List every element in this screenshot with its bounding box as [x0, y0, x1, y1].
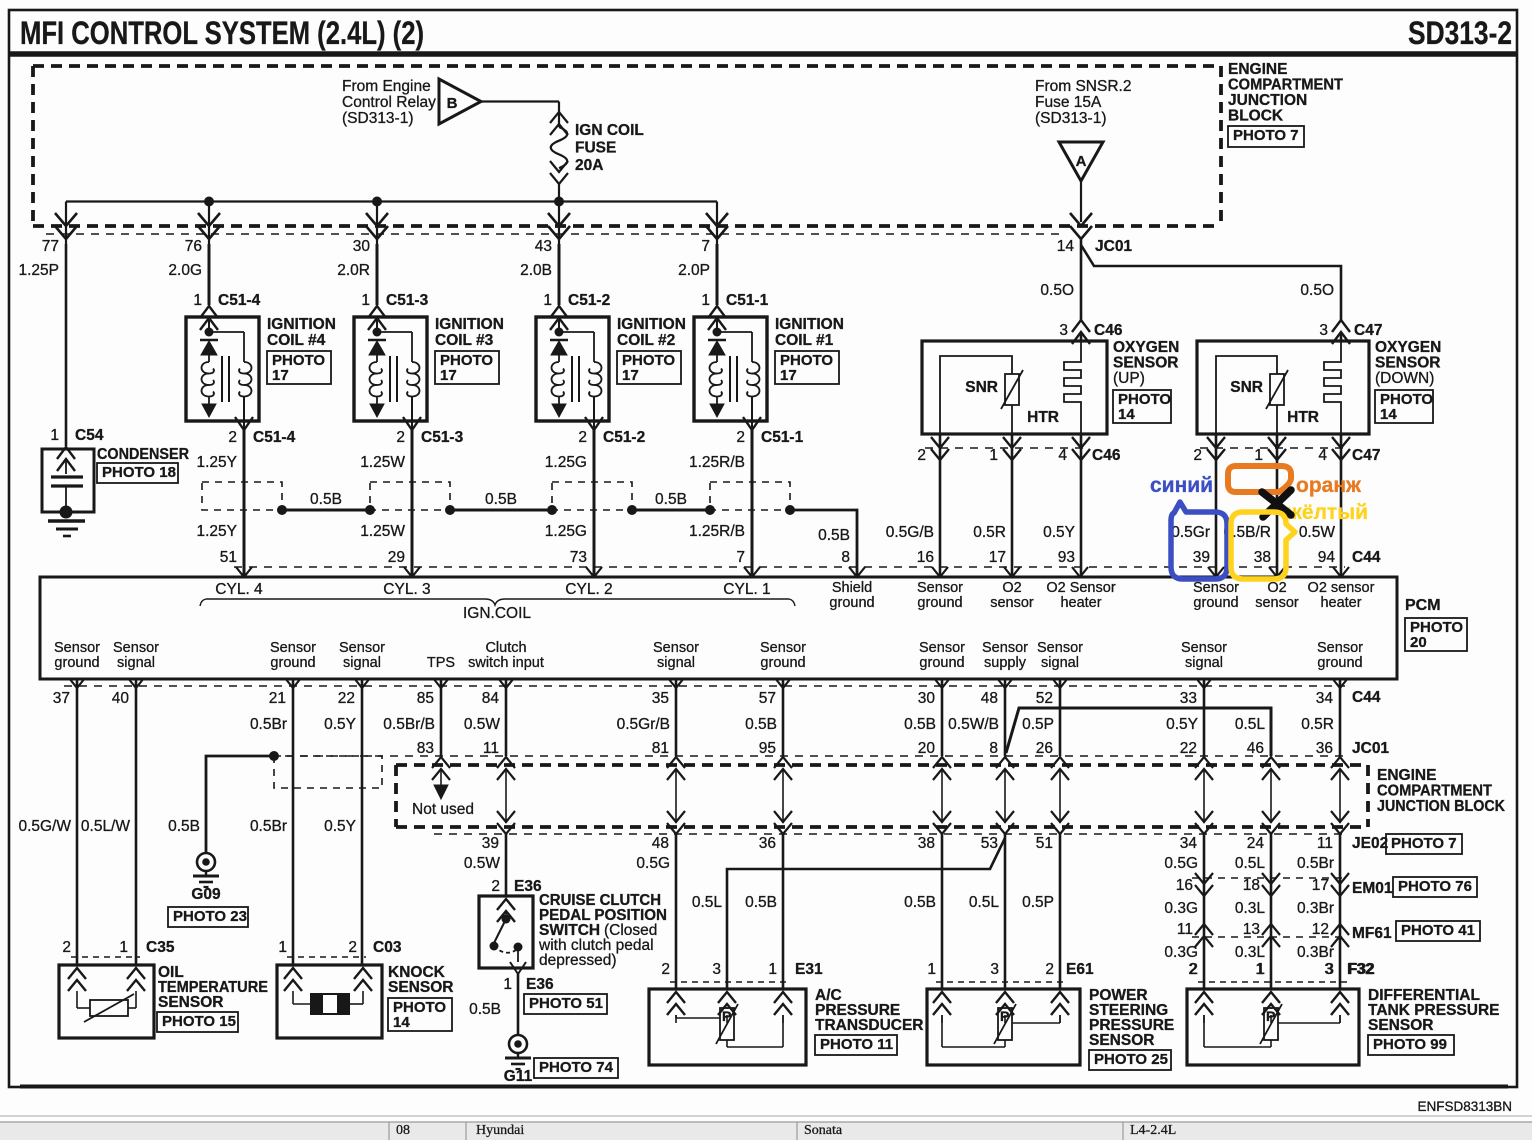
svg-text:20A: 20A	[575, 157, 603, 174]
svg-text:Sensor: Sensor	[1037, 640, 1083, 656]
svg-text:0.5Br: 0.5Br	[250, 716, 287, 733]
svg-text:2: 2	[1193, 447, 1202, 464]
svg-text:2.0R: 2.0R	[337, 262, 370, 279]
svg-text:G09: G09	[191, 886, 221, 903]
svg-text:C51-2: C51-2	[568, 292, 610, 309]
svg-text:39: 39	[1193, 549, 1210, 566]
svg-text:PHOTO 15: PHOTO 15	[162, 1013, 236, 1030]
svg-text:2.0P: 2.0P	[678, 262, 710, 279]
svg-text:2: 2	[228, 429, 237, 446]
svg-text:Fuse 15A: Fuse 15A	[1035, 94, 1102, 111]
svg-text:0.5G: 0.5G	[1164, 855, 1198, 872]
svg-text:OXYGEN: OXYGEN	[1113, 339, 1179, 356]
svg-text:A: A	[1076, 153, 1087, 170]
svg-text:3: 3	[712, 961, 721, 978]
svg-text:COIL #3: COIL #3	[435, 332, 494, 349]
svg-text:SENSOR: SENSOR	[1368, 1017, 1433, 1034]
svg-text:From SNSR.2: From SNSR.2	[1035, 78, 1131, 95]
svg-text:0.5R: 0.5R	[973, 524, 1006, 541]
svg-text:CYL. 4: CYL. 4	[215, 581, 263, 598]
svg-text:35: 35	[652, 690, 669, 707]
svg-text:0.5B: 0.5B	[818, 527, 850, 544]
svg-text:2.0G: 2.0G	[168, 262, 202, 279]
svg-text:0.5B: 0.5B	[168, 818, 200, 835]
svg-text:PHOTO 11: PHOTO 11	[820, 1036, 893, 1053]
svg-text:ground: ground	[829, 595, 874, 611]
svg-text:PHOTO 51: PHOTO 51	[529, 995, 603, 1012]
svg-text:1: 1	[278, 939, 287, 956]
svg-text:L4-2.4L: L4-2.4L	[1130, 1123, 1176, 1138]
svg-text:3: 3	[990, 961, 999, 978]
svg-text:2: 2	[917, 447, 926, 464]
svg-text:17: 17	[622, 367, 639, 384]
svg-text:signal: signal	[1041, 655, 1079, 671]
svg-text:1: 1	[768, 961, 777, 978]
svg-text:(UP): (UP)	[1113, 370, 1145, 387]
svg-text:MFI CONTROL SYSTEM (2.4L) (2): MFI CONTROL SYSTEM (2.4L) (2)	[20, 15, 424, 51]
svg-text:PHOTO 99: PHOTO 99	[1373, 1036, 1447, 1053]
svg-text:30: 30	[918, 690, 936, 707]
svg-text:C51-3: C51-3	[386, 292, 429, 309]
svg-text:HTR: HTR	[1287, 409, 1319, 426]
svg-text:PHOTO 18: PHOTO 18	[102, 464, 176, 481]
svg-text:76: 76	[185, 238, 202, 255]
svg-text:94: 94	[1318, 549, 1336, 566]
svg-text:84: 84	[482, 690, 500, 707]
svg-text:0.5Br/B: 0.5Br/B	[383, 716, 435, 733]
svg-text:P: P	[722, 1008, 731, 1024]
svg-text:SNR: SNR	[965, 379, 998, 396]
svg-text:52: 52	[1036, 690, 1053, 707]
svg-text:1.25Y: 1.25Y	[196, 454, 237, 471]
svg-text:16: 16	[917, 549, 934, 566]
svg-text:24: 24	[1247, 835, 1265, 852]
svg-text:E36: E36	[526, 976, 554, 993]
svg-text:0.3Br: 0.3Br	[1297, 900, 1334, 917]
svg-text:8: 8	[841, 549, 850, 566]
svg-text:11: 11	[1317, 835, 1333, 852]
svg-text:46: 46	[1247, 740, 1264, 757]
svg-text:0.5B: 0.5B	[904, 894, 936, 911]
svg-text:ground: ground	[917, 595, 962, 611]
svg-text:11: 11	[1177, 921, 1193, 938]
svg-text:Sensor: Sensor	[1181, 640, 1227, 656]
svg-text:JUNCTION: JUNCTION	[1228, 92, 1307, 109]
svg-text:30: 30	[353, 238, 371, 255]
svg-text:48: 48	[981, 690, 998, 707]
svg-text:0.5O: 0.5O	[1040, 282, 1074, 299]
svg-text:0.3Br: 0.3Br	[1297, 944, 1334, 961]
svg-text:1: 1	[1256, 961, 1265, 978]
svg-text:C47: C47	[1352, 447, 1380, 464]
svg-text:SENSOR: SENSOR	[1375, 355, 1440, 372]
svg-text:SD313-2: SD313-2	[1408, 15, 1512, 51]
svg-text:O2 sensor: O2 sensor	[1308, 580, 1375, 596]
svg-text:O2: O2	[1267, 580, 1286, 596]
svg-text:C03: C03	[373, 939, 402, 956]
svg-text:O2: O2	[1002, 580, 1021, 596]
svg-text:83: 83	[417, 740, 434, 757]
svg-text:8: 8	[989, 740, 998, 757]
svg-text:F32: F32	[1348, 961, 1375, 978]
svg-text:Sensor: Sensor	[339, 640, 385, 656]
svg-text:1.25Y: 1.25Y	[196, 523, 237, 540]
svg-text:51: 51	[220, 549, 237, 566]
svg-text:0.5Br: 0.5Br	[250, 818, 287, 835]
svg-text:2: 2	[736, 429, 745, 446]
svg-text:0.5B: 0.5B	[485, 491, 517, 508]
svg-text:Sonata: Sonata	[804, 1123, 843, 1138]
svg-text:C46: C46	[1092, 447, 1121, 464]
svg-text:signal: signal	[117, 655, 155, 671]
svg-text:3: 3	[1325, 961, 1334, 978]
svg-text:COIL #1: COIL #1	[775, 332, 834, 349]
svg-text:SENSOR: SENSOR	[388, 979, 453, 996]
svg-text:21: 21	[269, 690, 286, 707]
svg-text:(SD313-1): (SD313-1)	[1035, 110, 1107, 127]
svg-text:O2 Sensor: O2 Sensor	[1046, 580, 1115, 596]
svg-text:TPS: TPS	[427, 655, 455, 671]
svg-text:C46: C46	[1094, 322, 1123, 339]
svg-text:0.5P: 0.5P	[1022, 894, 1054, 911]
svg-text:17: 17	[1312, 877, 1329, 894]
svg-text:E61: E61	[1066, 961, 1094, 978]
svg-text:E36: E36	[514, 878, 542, 895]
svg-text:sensor: sensor	[1255, 595, 1299, 611]
svg-text:1: 1	[193, 292, 202, 309]
svg-text:7: 7	[736, 549, 745, 566]
svg-text:ENGINE: ENGINE	[1228, 61, 1287, 78]
svg-text:93: 93	[1058, 549, 1075, 566]
svg-text:1: 1	[361, 292, 370, 309]
svg-text:Sensor: Sensor	[1317, 640, 1363, 656]
svg-text:ground: ground	[760, 655, 805, 671]
svg-text:48: 48	[652, 835, 669, 852]
svg-text:57: 57	[759, 690, 776, 707]
svg-text:2.0B: 2.0B	[520, 262, 552, 279]
svg-text:PHOTO 25: PHOTO 25	[1094, 1051, 1168, 1068]
svg-text:C51-4: C51-4	[253, 429, 296, 446]
svg-text:P: P	[1000, 1008, 1009, 1024]
svg-text:29: 29	[388, 549, 405, 566]
svg-text:0.5L: 0.5L	[1235, 855, 1266, 872]
svg-text:36: 36	[1316, 740, 1333, 757]
svg-text:1.25P: 1.25P	[18, 262, 59, 279]
svg-text:1.25W: 1.25W	[360, 523, 405, 540]
svg-text:2: 2	[578, 429, 587, 446]
svg-text:0.5Y: 0.5Y	[324, 716, 356, 733]
svg-text:E31: E31	[795, 961, 823, 978]
svg-text:14: 14	[1118, 406, 1135, 423]
svg-text:JE02: JE02	[1352, 835, 1388, 852]
svg-text:heater: heater	[1320, 595, 1361, 611]
svg-text:JUNCTION BLOCK: JUNCTION BLOCK	[1377, 798, 1506, 815]
svg-text:95: 95	[759, 740, 776, 757]
svg-text:G11: G11	[504, 1068, 533, 1085]
svg-text:43: 43	[535, 238, 552, 255]
svg-text:C51-1: C51-1	[761, 429, 804, 446]
svg-text:PHOTO 7: PHOTO 7	[1391, 835, 1457, 852]
svg-text:2: 2	[62, 939, 71, 956]
svg-text:SENSOR: SENSOR	[1113, 355, 1178, 372]
svg-text:2: 2	[348, 939, 357, 956]
svg-text:C44: C44	[1352, 549, 1381, 566]
svg-text:0.5W: 0.5W	[1299, 524, 1336, 541]
svg-text:switch input: switch input	[468, 655, 544, 671]
svg-text:ground: ground	[270, 655, 315, 671]
svg-text:0.5Y: 0.5Y	[1043, 524, 1075, 541]
svg-text:IGN.COIL: IGN.COIL	[463, 605, 531, 622]
svg-text:1: 1	[543, 292, 552, 309]
svg-text:ground: ground	[1193, 595, 1238, 611]
svg-text:SENSOR: SENSOR	[158, 994, 223, 1011]
svg-text:14: 14	[393, 1014, 410, 1031]
svg-text:Sensor: Sensor	[917, 580, 963, 596]
svg-text:0.5G/B: 0.5G/B	[886, 524, 934, 541]
svg-text:ENGINE: ENGINE	[1377, 767, 1436, 784]
svg-text:3: 3	[1319, 322, 1328, 339]
svg-text:C51-1: C51-1	[726, 292, 769, 309]
svg-text:81: 81	[652, 740, 669, 757]
svg-text:0.5L/W: 0.5L/W	[81, 818, 130, 835]
svg-text:1: 1	[50, 427, 59, 444]
svg-text:C51-3: C51-3	[421, 429, 464, 446]
svg-text:CYL. 1: CYL. 1	[723, 581, 770, 598]
svg-text:supply: supply	[984, 655, 1027, 671]
svg-text:Sensor: Sensor	[760, 640, 806, 656]
svg-text:signal: signal	[343, 655, 381, 671]
svg-text:From Engine: From Engine	[342, 78, 431, 95]
svg-text:0.5Br: 0.5Br	[1297, 855, 1334, 872]
svg-text:0.5Y: 0.5Y	[1166, 716, 1198, 733]
svg-text:77: 77	[42, 238, 59, 255]
svg-text:ENFSD8313BN: ENFSD8313BN	[1417, 1099, 1512, 1114]
svg-text:0.5Gr/B: 0.5Gr/B	[617, 716, 670, 733]
svg-text:0.5Gr: 0.5Gr	[1171, 524, 1210, 541]
svg-text:TRANSDUCER: TRANSDUCER	[815, 1017, 924, 1034]
svg-text:ground: ground	[54, 655, 99, 671]
svg-text:1: 1	[119, 939, 128, 956]
svg-text:PHOTO 74: PHOTO 74	[539, 1059, 614, 1076]
svg-text:Sensor: Sensor	[1193, 580, 1239, 596]
svg-text:0.5L: 0.5L	[1235, 716, 1266, 733]
svg-text:Sensor: Sensor	[653, 640, 699, 656]
svg-text:4: 4	[1058, 447, 1067, 464]
svg-text:жёлтый: жёлтый	[1286, 501, 1368, 524]
svg-text:heater: heater	[1060, 595, 1101, 611]
svg-text:73: 73	[570, 549, 587, 566]
svg-text:0.5Y: 0.5Y	[324, 818, 356, 835]
svg-text:11: 11	[483, 740, 499, 757]
svg-text:17: 17	[440, 367, 457, 384]
svg-text:34: 34	[1180, 835, 1198, 852]
svg-text:2: 2	[396, 429, 405, 446]
svg-text:0.5G: 0.5G	[636, 855, 670, 872]
svg-text:0.5W: 0.5W	[464, 855, 501, 872]
svg-text:IGN COIL: IGN COIL	[575, 122, 644, 139]
svg-text:C54: C54	[75, 427, 104, 444]
svg-text:08: 08	[396, 1123, 410, 1138]
svg-text:C47: C47	[1354, 322, 1382, 339]
svg-text:2: 2	[491, 878, 500, 895]
svg-text:39: 39	[482, 835, 499, 852]
svg-text:22: 22	[338, 690, 355, 707]
svg-text:1.25W: 1.25W	[360, 454, 405, 471]
svg-text:1.25G: 1.25G	[545, 523, 587, 540]
svg-text:1.25R/B: 1.25R/B	[689, 523, 745, 540]
svg-text:2: 2	[661, 961, 670, 978]
svg-text:Sensor: Sensor	[113, 640, 159, 656]
svg-text:(DOWN): (DOWN)	[1375, 370, 1434, 387]
svg-text:HTR: HTR	[1027, 409, 1059, 426]
svg-text:1.25G: 1.25G	[545, 454, 587, 471]
svg-text:17: 17	[780, 367, 797, 384]
svg-text:SNR: SNR	[1230, 379, 1263, 396]
svg-text:0.5B: 0.5B	[469, 1001, 501, 1018]
svg-text:синий: синий	[1150, 474, 1213, 497]
svg-text:Clutch: Clutch	[485, 640, 526, 656]
svg-text:Shield: Shield	[832, 580, 872, 596]
svg-text:depressed): depressed)	[539, 952, 617, 969]
svg-text:1.25R/B: 1.25R/B	[689, 454, 745, 471]
svg-text:13: 13	[1243, 921, 1260, 938]
svg-text:1: 1	[989, 447, 998, 464]
svg-text:0.5B: 0.5B	[904, 716, 936, 733]
svg-text:33: 33	[1180, 690, 1197, 707]
svg-text:COIL #4: COIL #4	[267, 332, 326, 349]
svg-text:B: B	[447, 95, 458, 112]
svg-text:37: 37	[53, 690, 70, 707]
svg-text:0.5B: 0.5B	[310, 491, 342, 508]
svg-text:20: 20	[918, 740, 936, 757]
svg-text:2: 2	[1189, 961, 1198, 978]
svg-text:sensor: sensor	[990, 595, 1034, 611]
svg-text:SENSOR: SENSOR	[1089, 1032, 1154, 1049]
svg-text:4: 4	[1318, 447, 1327, 464]
svg-text:C35: C35	[146, 939, 175, 956]
svg-text:JC01: JC01	[1352, 740, 1389, 757]
svg-text:OXYGEN: OXYGEN	[1375, 339, 1441, 356]
svg-text:FUSE: FUSE	[575, 140, 616, 157]
svg-text:CYL. 3: CYL. 3	[383, 581, 430, 598]
svg-text:C51-2: C51-2	[603, 429, 645, 446]
svg-text:2: 2	[1045, 961, 1054, 978]
svg-text:1: 1	[503, 976, 512, 993]
svg-text:(SD313-1): (SD313-1)	[342, 110, 414, 127]
svg-text:BLOCK: BLOCK	[1228, 108, 1284, 125]
svg-text:0.5B: 0.5B	[655, 491, 687, 508]
svg-text:51: 51	[1036, 835, 1053, 852]
svg-text:36: 36	[759, 835, 776, 852]
svg-text:Sensor: Sensor	[54, 640, 100, 656]
svg-text:C51-4: C51-4	[218, 292, 261, 309]
svg-text:17: 17	[272, 367, 289, 384]
svg-text:0.5L: 0.5L	[969, 894, 1000, 911]
svg-text:оранж: оранж	[1296, 474, 1362, 497]
svg-text:34: 34	[1316, 690, 1334, 707]
svg-text:IGNITION: IGNITION	[617, 316, 686, 333]
svg-text:PHOTO 7: PHOTO 7	[1233, 127, 1299, 144]
svg-text:0.3G: 0.3G	[1164, 900, 1198, 917]
svg-text:14: 14	[1057, 238, 1075, 255]
svg-text:53: 53	[981, 835, 998, 852]
svg-text:0.5W/B: 0.5W/B	[948, 716, 999, 733]
svg-text:1: 1	[701, 292, 710, 309]
svg-text:ground: ground	[1317, 655, 1362, 671]
svg-text:0.5W: 0.5W	[464, 716, 501, 733]
svg-text:PHOTO 23: PHOTO 23	[173, 908, 247, 925]
svg-text:12: 12	[1312, 921, 1329, 938]
svg-text:1: 1	[927, 961, 936, 978]
svg-text:PHOTO 41: PHOTO 41	[1401, 922, 1475, 939]
svg-text:EM01: EM01	[1352, 880, 1393, 897]
svg-text:ground: ground	[919, 655, 964, 671]
svg-text:1: 1	[1254, 447, 1263, 464]
svg-text:JC01: JC01	[1095, 238, 1132, 255]
svg-text:Hyundai: Hyundai	[476, 1123, 524, 1138]
svg-text:26: 26	[1036, 740, 1053, 757]
svg-text:CONDENSER: CONDENSER	[97, 446, 189, 463]
svg-text:Sensor: Sensor	[270, 640, 316, 656]
svg-text:IGNITION: IGNITION	[775, 316, 844, 333]
svg-text:40: 40	[112, 690, 130, 707]
svg-text:COMPARTMENT: COMPARTMENT	[1377, 783, 1492, 800]
svg-text:Sensor: Sensor	[919, 640, 965, 656]
svg-text:38: 38	[1254, 549, 1271, 566]
svg-text:signal: signal	[657, 655, 695, 671]
svg-text:C44: C44	[1352, 689, 1381, 706]
svg-text:22: 22	[1180, 740, 1197, 757]
svg-text:0.5O: 0.5O	[1300, 282, 1334, 299]
svg-text:CYL. 2: CYL. 2	[565, 581, 612, 598]
svg-text:0.5L: 0.5L	[692, 894, 723, 911]
svg-text:0.5R: 0.5R	[1301, 716, 1334, 733]
svg-text:0.5B: 0.5B	[745, 716, 777, 733]
svg-text:0.3G: 0.3G	[1164, 944, 1198, 961]
svg-text:Sensor: Sensor	[982, 640, 1028, 656]
svg-text:P: P	[1266, 1008, 1275, 1024]
svg-text:16: 16	[1176, 877, 1193, 894]
svg-text:0.3L: 0.3L	[1235, 900, 1266, 917]
svg-text:20: 20	[1410, 634, 1427, 651]
svg-text:0.3L: 0.3L	[1235, 944, 1266, 961]
svg-text:85: 85	[417, 690, 434, 707]
svg-text:38: 38	[918, 835, 935, 852]
svg-text:14: 14	[1380, 406, 1397, 423]
svg-text:MF61: MF61	[1352, 925, 1392, 942]
svg-text:7: 7	[701, 238, 710, 255]
svg-text:3: 3	[1059, 322, 1068, 339]
svg-text:17: 17	[989, 549, 1006, 566]
svg-text:0.5G/W: 0.5G/W	[18, 818, 71, 835]
svg-text:18: 18	[1243, 877, 1260, 894]
svg-text:IGNITION: IGNITION	[435, 316, 504, 333]
svg-text:Control Relay: Control Relay	[342, 94, 436, 111]
svg-text:IGNITION: IGNITION	[267, 316, 336, 333]
svg-text:Not used: Not used	[412, 801, 474, 818]
svg-text:PHOTO 76: PHOTO 76	[1398, 878, 1472, 895]
svg-text:0.5B: 0.5B	[745, 894, 777, 911]
svg-text:PCM: PCM	[1405, 597, 1441, 614]
svg-text:signal: signal	[1185, 655, 1223, 671]
svg-text:COMPARTMENT: COMPARTMENT	[1228, 77, 1343, 94]
svg-text:0.5P: 0.5P	[1022, 716, 1054, 733]
svg-text:COIL #2: COIL #2	[617, 332, 675, 349]
